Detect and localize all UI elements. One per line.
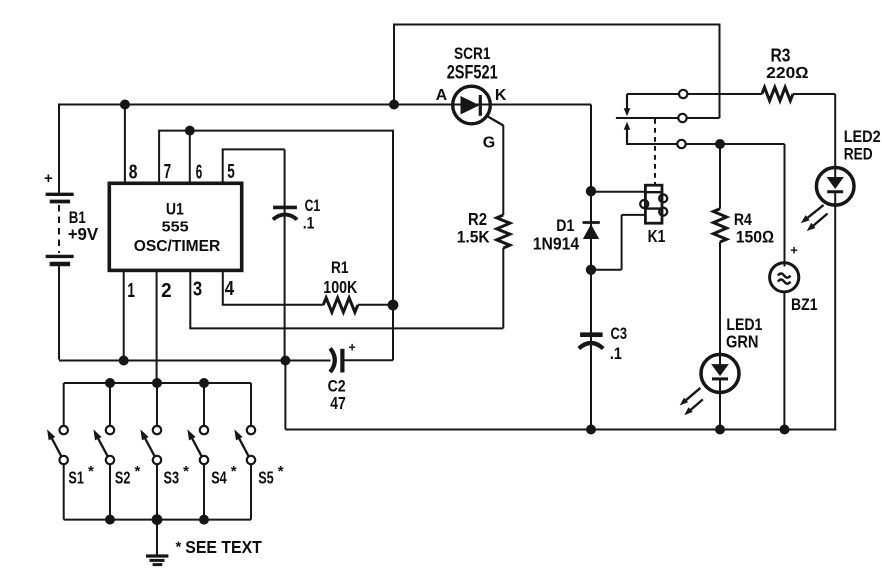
svg-text:1N914: 1N914 — [533, 234, 580, 254]
resistor R3 — [762, 87, 793, 100]
node ground rail / C1 / bottom rail — [280, 356, 290, 366]
svg-text:R4: R4 — [734, 210, 752, 229]
relay contact NO — [677, 140, 685, 148]
svg-text:S2: S2 — [115, 468, 131, 488]
svg-text:K: K — [495, 87, 507, 104]
node switch rail S2 bottom — [105, 515, 115, 525]
svg-text:100K: 100K — [323, 277, 357, 297]
wire relay actuation dashed link — [654, 119, 656, 185]
wire pin6/7 node down to R1 and C2 — [392, 131, 394, 361]
svg-text:R1: R1 — [331, 258, 349, 277]
wire switch bottom rail — [64, 519, 251, 521]
label C2 value 47 — [330, 393, 346, 413]
wire relay NO row — [626, 143, 677, 145]
relay K1 coil — [640, 185, 667, 223]
label S5 — [258, 463, 284, 488]
wire pin 3 to R2 bottom — [189, 248, 503, 328]
label C1 — [305, 196, 321, 215]
wire pin 2 to switch rail — [156, 270, 158, 383]
label 1N914 — [533, 234, 580, 254]
switch S1 — [47, 383, 68, 520]
switch S2 — [93, 383, 114, 520]
resistor R1 — [323, 298, 358, 312]
label C2 — [328, 378, 346, 396]
wire K1 coil bottom lead — [591, 215, 645, 270]
wire pin 5 to C1 — [222, 149, 285, 360]
wire NC contact to R3 — [687, 93, 762, 95]
wire R1 to vertical — [358, 304, 393, 306]
wire LED1 to bottom rail — [719, 392, 721, 430]
switch S3 — [140, 383, 161, 520]
wire K1 coil top lead — [591, 191, 645, 193]
svg-text:R3: R3 — [771, 46, 791, 66]
label S1 — [68, 463, 94, 488]
svg-text:G: G — [483, 135, 495, 152]
label R3 value 220 ohm — [766, 65, 809, 82]
label K1 — [648, 226, 666, 246]
label R3 — [771, 46, 791, 66]
svg-text:150Ω: 150Ω — [736, 228, 775, 247]
pin 3 label — [193, 279, 202, 301]
label K — [495, 87, 507, 104]
ground — [146, 520, 168, 565]
battery B1 plates — [46, 194, 74, 264]
svg-text:*: * — [183, 463, 189, 480]
svg-text:.1: .1 — [610, 344, 622, 363]
node switch rail S3 bottom / ground — [152, 514, 163, 525]
svg-text:5: 5 — [227, 161, 235, 183]
label SCR1 — [454, 45, 491, 63]
pin 1 label — [127, 280, 134, 302]
node bottom rail / C3 — [586, 425, 596, 435]
label SEE TEXT — [176, 537, 263, 557]
svg-text:.1: .1 — [303, 214, 315, 233]
resistor R2 — [497, 215, 510, 248]
LED2 — [816, 168, 854, 206]
wire R3 to LED2 — [793, 94, 835, 168]
svg-text:SEE TEXT: SEE TEXT — [185, 537, 262, 557]
buzzer BZ1 — [770, 263, 799, 292]
label GRN — [726, 332, 759, 352]
node switch rail S4 top — [199, 378, 209, 388]
svg-text:OSC/TIMER: OSC/TIMER — [134, 238, 221, 255]
svg-text:2: 2 — [161, 280, 172, 302]
wire NO row to R4 — [719, 144, 721, 209]
svg-text:3: 3 — [193, 279, 202, 301]
pin 8 label — [129, 162, 138, 184]
wire pin 4 to R1 — [222, 270, 323, 304]
label OSC/TIMER — [134, 238, 221, 255]
pin 2 label — [161, 280, 172, 302]
wire relay arm stub — [616, 117, 678, 119]
svg-text:*: * — [176, 539, 182, 556]
label R2 value 1.5K — [457, 228, 491, 247]
node bottom rail / LED1 — [715, 425, 725, 435]
svg-text:*: * — [88, 463, 94, 480]
label RED — [844, 145, 873, 164]
label S2 — [115, 463, 141, 488]
label C3 — [611, 324, 628, 343]
svg-text:4: 4 — [225, 278, 235, 300]
label +9V — [68, 224, 99, 244]
wire relay NC row — [627, 93, 679, 95]
label 555 — [162, 219, 189, 236]
label 2SF521 — [447, 63, 498, 84]
wire top rail — [393, 25, 721, 119]
svg-text:A: A — [436, 87, 448, 104]
svg-text:+: + — [790, 243, 798, 258]
svg-text:2SF521: 2SF521 — [447, 63, 498, 84]
label R2 — [468, 209, 487, 229]
label R4 — [734, 210, 752, 229]
svg-text:*: * — [231, 463, 237, 480]
switch S5 — [234, 383, 255, 520]
wire BZ1 to bottom rail — [783, 292, 785, 430]
label C1 value .1 — [303, 214, 315, 233]
wire battery negative lead — [58, 264, 60, 360]
svg-text:S3: S3 — [164, 468, 180, 488]
label C3 value .1 — [610, 344, 622, 363]
diode D1 — [583, 223, 600, 240]
wire pin 7 to pin 6 node — [158, 131, 394, 184]
svg-text:LED2: LED2 — [844, 128, 881, 146]
svg-text:K1: K1 — [648, 226, 666, 246]
wire +9V rail from battery to SCR anode — [59, 104, 453, 106]
label A — [436, 87, 448, 104]
node switch rail S2 top — [105, 378, 115, 388]
node pin6/7 junction — [185, 126, 195, 136]
svg-text:C3: C3 — [611, 324, 628, 343]
op-amp U1 555 timer box — [109, 183, 241, 270]
switch S4 — [187, 383, 208, 520]
node bottom rail / BZ1 — [780, 425, 790, 435]
svg-text:S4: S4 — [211, 468, 227, 488]
label U1 — [166, 200, 184, 219]
relay contact common — [678, 114, 686, 122]
label BZ1 — [791, 295, 818, 314]
svg-text:D1: D1 — [556, 216, 574, 235]
wire SCR cathode node vertical — [590, 105, 592, 430]
svg-text:6: 6 — [196, 162, 203, 184]
svg-text:+: + — [349, 341, 356, 355]
svg-text:U1: U1 — [166, 200, 184, 219]
label R4 value 150 ohm — [736, 228, 775, 247]
wire pin 1 — [123, 270, 125, 360]
wire bottom rail — [285, 361, 836, 430]
svg-text:RED: RED — [844, 145, 873, 164]
node D1 anode / K1 — [586, 265, 596, 275]
svg-text:*: * — [278, 463, 284, 480]
pin 7 label — [164, 161, 172, 183]
svg-text:S5: S5 — [258, 468, 274, 488]
node junction +9V / top rail — [389, 100, 399, 110]
battery plus sign — [44, 170, 53, 187]
svg-text:C1: C1 — [305, 196, 321, 215]
node NO row / R4 — [715, 139, 725, 149]
wire NO contact to R4 and buzzer — [686, 144, 785, 267]
svg-text:GRN: GRN — [726, 332, 759, 352]
pin 6 label — [196, 162, 203, 184]
label B1 — [69, 208, 86, 227]
thyristor SCR1 — [453, 86, 504, 125]
svg-text:1.5K: 1.5K — [457, 228, 491, 247]
label S3 — [164, 463, 190, 488]
label S4 — [211, 463, 237, 488]
node R1 / C2 / pin6-7 junction — [388, 300, 399, 311]
svg-text:555: 555 — [162, 219, 189, 236]
wire R4 to LED1 — [719, 242, 721, 355]
svg-text:*: * — [135, 463, 141, 480]
svg-text:1: 1 — [127, 280, 134, 302]
wire SCR cathode to right corner — [491, 104, 592, 106]
wire SCR gate to R2 — [502, 125, 504, 215]
relay arm arrow up — [624, 122, 631, 144]
node switch rail S4 bottom — [199, 515, 209, 525]
svg-text:BZ1: BZ1 — [791, 295, 818, 314]
pin 5 label — [227, 161, 235, 183]
label D1 — [556, 216, 574, 235]
label C2 plus — [349, 341, 356, 355]
svg-text:7: 7 — [164, 161, 172, 183]
svg-text:+9V: +9V — [68, 224, 99, 244]
svg-text:+: + — [44, 170, 53, 187]
label R1 — [331, 258, 349, 277]
resistor R4 — [713, 209, 726, 242]
wire pin 8 — [124, 105, 126, 184]
wire pin 6 — [189, 131, 191, 184]
LED1 — [701, 352, 739, 392]
svg-text:47: 47 — [330, 393, 346, 413]
node D1 cathode / K1 — [586, 186, 596, 196]
pin 4 label — [225, 278, 235, 300]
label LED2 — [844, 128, 881, 146]
wire common contact to top rail — [687, 117, 720, 119]
svg-text:220Ω: 220Ω — [766, 65, 809, 82]
wire LED2 to bottom rail — [834, 205, 836, 430]
relay arm arrow down — [624, 94, 631, 116]
wire switch top rail — [64, 382, 251, 384]
LED1 light arrows — [680, 388, 703, 415]
svg-text:R2: R2 — [468, 209, 487, 229]
svg-text:S1: S1 — [68, 468, 84, 488]
capacitor C1 — [273, 207, 297, 219]
svg-text:8: 8 — [129, 162, 138, 184]
node pin1 / ground rail — [119, 356, 129, 366]
wire battery positive lead — [58, 104, 60, 195]
node junction +9V / pin8 — [120, 100, 130, 110]
node switch rail S3 top / pin2 — [152, 378, 162, 388]
LED2 light arrows — [801, 205, 828, 231]
label R1 value 100K — [323, 277, 357, 297]
relay contact NC — [679, 90, 687, 98]
capacitor C3 — [579, 335, 603, 349]
label LED1 — [726, 315, 762, 334]
svg-text:SCR1: SCR1 — [454, 45, 491, 63]
label G — [483, 135, 495, 152]
capacitor C2 — [330, 348, 393, 372]
label BZ1 plus — [790, 243, 798, 258]
wire ground rail to C2 — [59, 360, 331, 362]
